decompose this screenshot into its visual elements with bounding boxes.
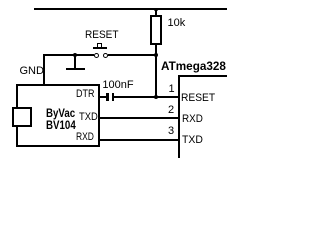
pin label: RESET (chip) [181, 93, 215, 104]
module U1 ByVac BV104 box [16, 84, 100, 147]
node: ground tap junction [73, 53, 77, 57]
wire: junction B to chip pin 1 [156, 96, 179, 98]
pin label: TXD (module) [79, 112, 98, 123]
pin number 1 [169, 84, 175, 95]
wire: module RXD to chip pin 3 [99, 139, 179, 141]
module connector square [12, 107, 32, 128]
capacitor C1 plate 1 [106, 93, 109, 102]
label: 10k [168, 18, 186, 29]
wire: rail to resistor top [155, 9, 157, 15]
chip U2 ATmega328 top edge [178, 75, 227, 77]
wire: +V top rail [34, 8, 227, 10]
label: ByVac (bold) [46, 107, 75, 119]
resistor R1 10k [150, 15, 162, 46]
pin number 3 [168, 126, 174, 137]
chip U2 ATmega328 left edge [178, 75, 180, 158]
label: RESET (button) [85, 30, 119, 41]
ground symbol bar [66, 68, 86, 70]
wire: capacitor to junction B [114, 96, 156, 98]
pushbutton S1: left contact circle [94, 53, 99, 58]
label: BV104 (bold) [46, 119, 76, 131]
wire: DTR to capacitor [99, 96, 106, 98]
pushbutton S1: right contact circle [103, 53, 108, 58]
capacitor C1 plate 2 [112, 93, 115, 102]
wire: module TXD to chip pin 2 [99, 117, 179, 119]
pin label: TXD (chip) [182, 135, 203, 146]
wire: resistor bottom to junction A [155, 44, 157, 57]
label: ATmega328 (bold) [161, 60, 226, 72]
node: junction B (reset net) [154, 95, 158, 99]
pin label: RXD (chip) [182, 114, 203, 125]
wire: ground stem [74, 55, 76, 69]
label: 100nF [102, 80, 133, 91]
node: junction A (button/resistor net) [154, 53, 158, 57]
pin label: RXD (module) [76, 132, 94, 143]
pin number 2 [168, 105, 174, 116]
wire: junction A down to junction B [155, 55, 157, 97]
pushbutton S1: actuator bump [97, 43, 102, 48]
label: GND [20, 66, 44, 77]
pin label: DTR [76, 89, 95, 100]
node: rail-resistor junction [154, 8, 158, 12]
wire: GND corner to left contact [43, 54, 94, 56]
wire: GND net down to module top [43, 55, 45, 85]
pushbutton S1: actuator bar [93, 47, 107, 49]
wire: right contact to junction A [108, 54, 158, 56]
